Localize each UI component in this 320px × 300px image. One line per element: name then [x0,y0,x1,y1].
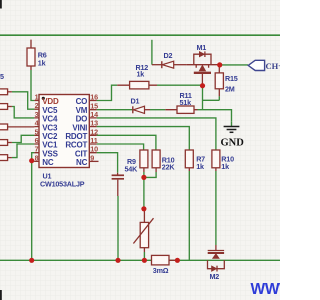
svg-text:1k: 1k [221,162,229,171]
wire pin16 CO up to R12 [97,85,118,100]
svg-text:13: 13 [90,119,98,128]
wire R15 bottom link [218,96,220,100]
svg-text:VC4: VC4 [42,115,58,124]
svg-text:CW1053ALJP: CW1053ALJP [40,180,85,189]
node thermistor top junction [141,206,146,211]
IC U1 body [39,95,89,168]
svg-text:VSS: VSS [42,149,58,158]
svg-text:VC5: VC5 [42,106,58,115]
node M1 drain/R15/port junction [217,62,222,67]
wire pin7 VSS down to bottom rail [32,153,35,261]
svg-text:22K: 22K [162,163,176,172]
wire pin12 RDOT to R10a [97,135,156,150]
svg-text:M1: M1 [197,43,207,52]
resistor R10 (1k) [212,150,234,171]
svg-text:GND: GND [221,137,245,148]
svg-text:8: 8 [35,153,39,162]
ground GND [224,121,240,132]
port CH+ [248,60,283,71]
resistor R15 [215,65,238,96]
svg-text:51k: 51k [180,98,192,107]
svg-text:11: 11 [90,136,98,145]
diode D1 [131,97,151,114]
svg-text:CO: CO [76,97,88,106]
wire R12 right to node [157,84,203,86]
node bottom rail at x=31 [29,258,34,263]
node pin8/rail junction [29,158,34,163]
node M1 gate/R12 junction [200,83,205,88]
svg-text:2: 2 [35,101,39,110]
svg-text:VINI: VINI [72,123,87,132]
wire capacitor bottom to rail [117,196,119,260]
resistor R7 [185,150,205,171]
transistor M1 (P-MOSFET) [187,51,220,85]
wire D2 branch from rail [151,40,153,65]
resistor R6 [27,40,47,70]
svg-text:7: 7 [35,145,39,154]
wire resistor2 to pin3 VC4 [12,107,35,118]
svg-text:VC1: VC1 [42,141,58,150]
svg-text:WWW: WWW [251,281,281,298]
wire R6 bottom to pin1 VDD [31,70,34,101]
svg-text:5: 5 [0,72,4,81]
IC U1 pin stubs right [89,101,96,153]
diode D2 [152,51,187,68]
svg-text:1: 1 [35,93,39,102]
svg-text:2M: 2M [225,85,235,94]
wire D1 to R11 [150,109,165,111]
svg-text:VC3: VC3 [42,123,58,132]
svg-text:3: 3 [35,110,39,119]
svg-text:1k: 1k [196,162,204,171]
svg-text:5: 5 [35,127,39,136]
transistor M2 (MOSFET) [208,245,225,272]
node bottom rail at shunt right [175,258,180,263]
svg-text:10: 10 [90,145,98,154]
wire R10b bottom to M2 drain [215,171,217,245]
wire pin13 VINI to R7 [97,127,190,150]
pin 9 NC stub [89,160,98,162]
resistor R5 (cut off at left edge) [0,72,12,95]
sheet border tick bottom-left [0,290,2,300]
wire R11 right to GND branch [198,110,232,122]
wire R7 bottom to rail [188,171,190,260]
wire R9 bottom junction [143,172,145,209]
svg-text:D2: D2 [164,51,173,60]
wire resistor4 to pin5 VC2 [12,135,35,142]
svg-text:12: 12 [90,127,98,136]
wire pin14 DO to R10b [97,118,216,150]
IC U1 pin stubs left [34,101,39,162]
svg-text:NC: NC [76,158,88,167]
svg-text:M2: M2 [210,272,220,281]
svg-text:1k: 1k [38,59,46,68]
wire pin11 RCOT to R9 [97,144,144,150]
svg-text:R15: R15 [225,74,238,83]
svg-text:RDOT: RDOT [65,132,87,141]
pin1 marker dot [42,97,45,100]
svg-text:DO: DO [76,115,88,124]
resistor R12 [117,63,157,89]
resistor R10 (22K) [152,150,175,172]
wire resistor5 to pin6 VC1 [12,144,35,158]
wire node vertical M1 source to R11 row [202,86,204,110]
wire resistor1 to pin2 VC5 [12,92,35,109]
svg-text:3mΩ: 3mΩ [153,266,169,275]
svg-text:RCOT: RCOT [65,141,87,150]
wire pin15 VM to D1 [97,109,133,111]
svg-text:14: 14 [90,110,98,119]
svg-text:1k: 1k [137,70,145,79]
wire bottom rail right [169,259,280,261]
svg-text:VM: VM [76,106,88,115]
wire R10a bottom jog [144,172,156,177]
svg-text:CH+: CH+ [266,61,281,71]
shunt resistor 3mOhm [152,255,178,275]
resistor R11 [165,91,197,114]
IC U1 pin names [42,97,87,167]
svg-text:VDD: VDD [42,97,59,106]
svg-text:D1: D1 [131,97,140,106]
node bottom rail at cap [115,258,120,263]
wire bottom rail left [0,259,152,261]
IC U1 pin numbers [35,93,99,163]
node R9/R10 junction [141,175,146,180]
svg-text:NC: NC [42,158,54,167]
svg-text:54K: 54K [125,164,139,173]
resistor R9 [125,150,148,173]
svg-text:6: 6 [35,136,39,145]
svg-text:VC2: VC2 [42,132,58,141]
wire top power rail [0,34,280,36]
thermistor RT [133,209,153,260]
resistor (cut off at left edge) row5 [0,155,12,161]
wire node to CH port [222,64,248,66]
resistor (cut off at left edge) row3 [0,124,8,130]
wire pin8 NC to vertical [32,160,35,162]
svg-text:4: 4 [35,119,39,128]
wire resistor3 to pin4 VC3 [8,126,35,128]
resistor (cut off at left edge) row4 [0,140,12,146]
wire pin10 CIT to capacitor [97,153,118,173]
resistor (cut off at left edge) row2 [0,104,12,110]
svg-text:9: 9 [90,153,94,162]
svg-text:16: 16 [90,93,98,102]
svg-text:CIT: CIT [75,149,88,158]
capacitor (CIT) [112,173,124,196]
wire node horizontal to R15 [203,99,220,101]
node bottom rail at thermistor [142,258,147,263]
sheet border tick top-left [0,0,2,9]
